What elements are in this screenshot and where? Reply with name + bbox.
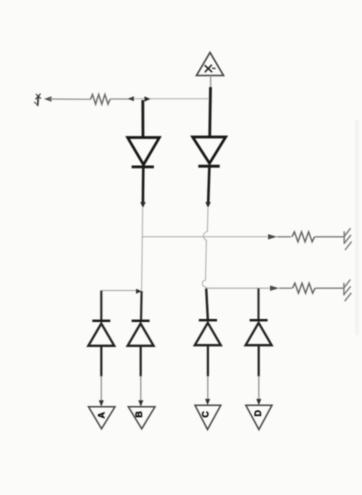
wire [134,98,211,100]
wire drop to D6 [257,288,259,320]
arrowhead [205,399,210,405]
diode D1 (left top) [128,100,160,203]
arrowhead left (off-page) [44,96,52,101]
svg-text:D: D [253,409,263,416]
junction arrowhead (right) [144,96,150,101]
wire [210,76,212,91]
resistor R2 [292,232,315,242]
wire W2 (node 2 horizontal) [206,287,270,289]
wire [315,287,344,289]
wire [315,236,344,238]
junction arrowhead [205,202,210,208]
wire W1 (node 1 horizontal) [142,236,268,238]
off-page flag A [89,407,116,429]
diode D2 (right top) [193,87,226,203]
wire drop to D4 [140,291,143,321]
wire [140,376,142,401]
wire W3 (node 3 horizontal left) [101,290,136,292]
chassis ground (hatch) [344,228,351,250]
wire drop to D3 [100,291,102,322]
wire (left chain vertical) [142,207,143,291]
wire [110,98,134,100]
resistor R1 [91,94,110,104]
wire [258,376,260,400]
arrowhead [256,399,261,405]
wire [207,376,209,400]
wire [50,98,91,100]
junction arrowhead (left) [128,96,134,101]
svg-text:B: B [134,411,144,418]
junction arrowhead [140,202,145,208]
diode D4 (bottom, chain B) [128,321,154,377]
resistor R3 [293,283,316,293]
off-page flag D [246,405,272,429]
diode D3 (bottom, chain A) [88,321,114,377]
node +5 label [34,94,41,106]
arrowhead [99,400,104,406]
wire drop to D5 [206,288,208,320]
wire [279,287,292,289]
chassis ground (hatch) [344,280,351,302]
scan edge shading (decorative, faint) [355,120,359,335]
off-page flag K [197,53,224,76]
diode D6 (bottom, chain D) [246,320,272,376]
off-page flag C [195,405,221,429]
svg-text:C: C [201,411,211,418]
arrowhead [268,234,277,239]
svg-text:A: A [96,411,106,418]
diode D5 (bottom, chain C) [195,320,221,376]
wire [100,376,102,401]
junction arrowhead [136,289,142,294]
wire (right chain vertical with hops) [202,207,208,288]
arrowhead [270,286,279,291]
off-page flag B [128,407,155,429]
arrowhead [138,400,143,406]
wire [277,236,291,238]
